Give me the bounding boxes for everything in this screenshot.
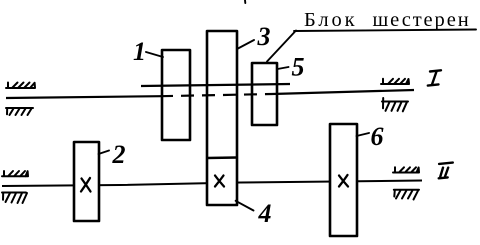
svg-text:5: 5 bbox=[292, 53, 305, 82]
svg-text:6: 6 bbox=[371, 122, 384, 151]
svg-text:4: 4 bbox=[258, 199, 272, 228]
svg-text:1: 1 bbox=[133, 37, 146, 66]
svg-text:3: 3 bbox=[257, 22, 271, 51]
svg-text:Блок: Блок bbox=[304, 9, 358, 31]
svg-text:шестерен: шестерен bbox=[373, 9, 471, 31]
svg-text:2: 2 bbox=[112, 140, 126, 169]
